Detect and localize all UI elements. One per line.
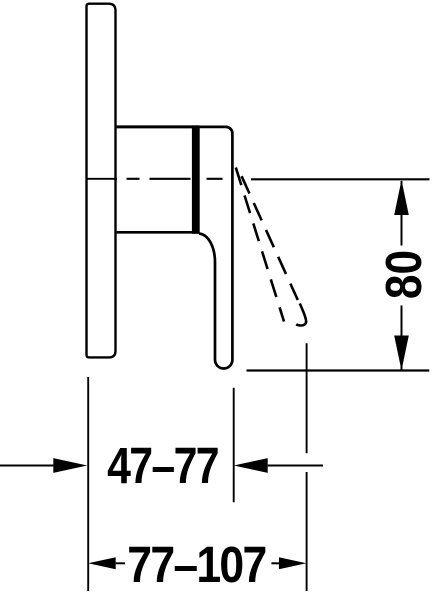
dimension 77-107 left tail [116,562,125,564]
arrowhead 77-107 left [88,557,116,569]
lever handle (closed position, solid) [199,127,232,369]
extension line: centerline to right (dim 80 top) [251,178,430,180]
arrowhead 47-77 right [234,458,268,473]
dimension 47-77 right tail [268,465,323,467]
lever handle open position: left dashed edge [236,168,284,322]
dimension line 80 (upper part) [401,181,403,246]
centerline dash 3 [207,178,223,180]
extension line below open-handle tip (upper) [306,343,308,453]
lever handle open position: right dashed edge [242,176,298,300]
extension line below handle right edge [233,388,235,503]
extension line below plate left edge [87,377,89,591]
mixer body bottom line [117,231,199,234]
wall plate (escutcheon side view) [87,4,116,358]
body/handle divider (thick line) [192,125,200,233]
lever handle open position: tip cap [296,304,306,326]
svg-text:80: 80 [376,250,433,299]
arrowhead 77-107 right [279,557,307,569]
dimension 77-107 right tail [271,562,279,564]
dimension line 80 (lower part) [401,306,403,370]
centerline segment inside plate [86,178,118,180]
arrowhead 80 bottom [394,336,409,371]
centerline dash 1 [127,178,140,180]
svg-text:77–107: 77–107 [127,537,265,593]
centerline dash 2 [150,178,191,180]
dimension 47-77 left tail [0,465,54,467]
svg-text:47–77: 47–77 [107,436,218,493]
mixer body top line [117,125,199,128]
extension line below open-handle tip (lower) [306,472,308,591]
extension line: handle tip level (dim 80 bottom) [247,369,430,371]
arrowhead 47-77 left [53,458,87,473]
arrowhead 80 top [394,180,409,215]
